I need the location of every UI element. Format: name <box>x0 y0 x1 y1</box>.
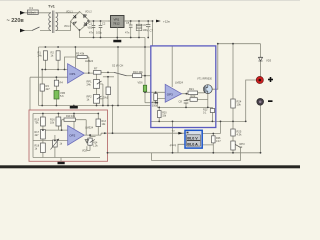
wire meter right side <box>202 134 220 153</box>
resistor R16 <box>56 117 61 126</box>
potentiometer RP2 <box>87 95 102 104</box>
wire inner rail y121.4 <box>151 120 246 122</box>
bottom black bar <box>0 165 300 168</box>
svg-text:R4: R4 <box>60 81 64 85</box>
diode VD3 <box>258 57 262 61</box>
wire brown box feedback left column <box>29 77 31 110</box>
wire riser com x172.5 <box>172 121 174 152</box>
wire wiper riser x102.9 <box>100 84 103 106</box>
wire riser x220.5 <box>220 121 222 133</box>
wire op1 plus input row y77.2 <box>30 76 68 78</box>
wire VD3 column to plus terminal <box>260 44 262 77</box>
ground on rail y105.5 <box>70 106 78 109</box>
svg-text:VD2: VD2 <box>82 150 87 153</box>
wire op2 output <box>84 134 101 136</box>
wire zener vd7 col <box>54 135 56 158</box>
brown box <box>29 110 108 161</box>
resistor R22 <box>190 98 197 102</box>
svg-text:Tv1: Tv1 <box>48 4 56 9</box>
svg-text:VD1.1: VD1.1 <box>66 11 73 14</box>
resistor R15 <box>41 117 46 126</box>
wire ground column x146.5 down from rail <box>144 38 146 86</box>
diode VD1.1 <box>73 15 76 18</box>
svg-text:C1: C1 <box>89 22 93 26</box>
svg-text:~ 220в: ~ 220в <box>7 18 25 24</box>
switch S2 <box>114 72 127 75</box>
wire op2 feedback <box>62 120 87 135</box>
wire signal path y73 <box>84 72 151 75</box>
bridge rectifier VD1 <box>71 12 91 31</box>
terminal arrow bottom <box>20 29 25 33</box>
capacitor C1 <box>92 21 96 38</box>
resistor R18 <box>41 143 46 153</box>
+12V arrow <box>156 20 161 23</box>
fuse F1 <box>28 6 39 14</box>
wire AC top <box>24 12 51 14</box>
svg-text:VT1 IRF9530: VT1 IRF9530 <box>197 78 212 81</box>
wire secondary bottom to bridge left <box>56 21 71 30</box>
resistor R1 <box>43 51 47 60</box>
wire R column x155.6 <box>155 92 157 102</box>
diode VD1.2 <box>84 15 87 18</box>
wire meter plus input from rail <box>101 106 185 136</box>
resistor R23 shunt <box>210 109 214 113</box>
switch S1 <box>32 27 40 31</box>
meter +U arrow <box>178 132 183 135</box>
resistor R2 <box>56 51 60 60</box>
svg-text:100mA: 100mA <box>28 12 36 15</box>
wire DA column x108.5 <box>107 77 109 106</box>
transformer Tv1 <box>49 11 58 34</box>
voltage regulator VR1 7812 <box>108 16 130 40</box>
wire riser x152.5 to blue box <box>152 21 154 46</box>
wire step x151.6 <box>151 153 153 161</box>
blue box <box>151 46 216 128</box>
transistor VT1 IRF9530 <box>197 78 212 94</box>
wire OP1 supply riser <box>74 47 76 68</box>
wire plus terminal branch <box>246 80 257 121</box>
svg-text:0.47: 0.47 <box>216 140 221 143</box>
resistor R20 <box>158 111 162 118</box>
wire box inner top rail <box>33 113 98 115</box>
wire VT1 source down <box>186 93 208 107</box>
wire rail y160.6 <box>152 148 241 161</box>
svg-text:300k: 300k <box>152 104 158 107</box>
svg-text:24k: 24k <box>87 83 92 87</box>
zener VD6 green reference <box>143 85 146 92</box>
wire op3 plus input y98.5 <box>157 99 165 108</box>
capacitor C8 <box>184 101 189 103</box>
resistor R13 <box>96 119 101 127</box>
wire inner rail y107.4 <box>157 106 212 108</box>
svg-text:VD1.2: VD1.2 <box>85 11 92 14</box>
svg-text:DA1: DA1 <box>103 96 109 100</box>
plus terminal <box>256 76 263 83</box>
wire AC bottom <box>24 30 51 32</box>
svg-text:VD1.3: VD1.3 <box>64 25 71 28</box>
wire switch second contact y76.8 <box>103 76 114 78</box>
wire OP2 supply riser <box>73 114 75 130</box>
wire top right rail y43.7 <box>218 43 261 45</box>
svg-text:1.3k: 1.3k <box>93 145 98 148</box>
wire riser x118 <box>117 47 119 106</box>
svg-text:7812: 7812 <box>113 22 120 26</box>
trimmer RP4 <box>88 138 99 147</box>
svg-text:00.0 V: 00.0 V <box>187 136 198 140</box>
AC terminal arrows <box>20 11 25 33</box>
plus sign <box>268 77 273 82</box>
wire reference column x145.6 <box>144 92 146 103</box>
svg-text:00.0 A: 00.0 A <box>187 142 198 146</box>
wire R16 col <box>57 114 59 131</box>
wire rail y105.5 <box>39 105 151 107</box>
op-amp OP3 <box>165 84 181 102</box>
resistor R24 <box>231 99 235 108</box>
wire box left column <box>33 114 100 158</box>
svg-text:+12в: +12в <box>163 19 170 23</box>
potentiometer RP1 <box>87 80 102 89</box>
diode VD2 <box>85 140 89 143</box>
svg-text:OP2: OP2 <box>69 134 75 138</box>
wire minus terminal column <box>260 105 262 153</box>
terminal arrow top <box>20 11 25 15</box>
wire R15 col <box>42 114 44 158</box>
resistor R5 feedback <box>77 56 87 59</box>
ground below brown box <box>58 162 65 164</box>
svg-text:10k: 10k <box>237 103 242 107</box>
wire feedback loop OP1 <box>65 57 89 73</box>
wire C8 column <box>185 100 187 108</box>
capacitor C5 <box>129 21 133 38</box>
resistor R7 <box>93 71 101 75</box>
reference DA1 <box>106 87 111 95</box>
potentiometer RP3 <box>231 141 245 150</box>
diode VD1.4 <box>84 22 87 25</box>
capacitor C7 <box>146 21 150 38</box>
top edge line <box>0 0 300 1</box>
op-amp OP2 <box>68 126 85 146</box>
wire R20 column <box>158 107 160 121</box>
wire R4 green column <box>55 77 57 105</box>
svg-text:-(com): -(com) <box>169 144 176 147</box>
resistor R4 <box>54 80 58 86</box>
svg-text:R5 43k: R5 43k <box>76 52 85 56</box>
wire DC plus rail y21 <box>88 20 153 22</box>
svg-text:4k7: 4k7 <box>46 87 51 91</box>
wire op3 out to R21 <box>182 92 205 95</box>
wire trimmer diode cluster <box>87 135 96 150</box>
minus sign <box>268 100 273 102</box>
svg-text:OP3: OP3 <box>167 92 173 96</box>
svg-text:VD6: VD6 <box>138 81 144 85</box>
wire shunt R23 column <box>211 107 213 121</box>
svg-text:C6: C6 <box>143 23 147 27</box>
svg-text:C5: C5 <box>126 21 130 25</box>
svg-text:S2 I/II CH: S2 I/II CH <box>112 64 123 68</box>
capacitor C6 electrolytic <box>136 21 142 38</box>
svg-text:R19 43k: R19 43k <box>66 115 76 118</box>
ground below regulator <box>113 40 121 43</box>
trimmer RP5 <box>53 140 58 147</box>
wire R1 R2 stubs to input row <box>45 60 58 69</box>
svg-text:R10 43k: R10 43k <box>133 70 143 74</box>
svg-text:F1: F1 <box>30 6 34 10</box>
svg-text:C7: C7 <box>150 29 154 33</box>
resistor R25 <box>231 129 235 136</box>
svg-text:VD3: VD3 <box>266 59 272 63</box>
wire meter com stub <box>178 144 185 153</box>
wire R24 column <box>232 44 234 153</box>
wire op2 inv input <box>43 129 68 131</box>
wire rail y102.7 green to op3 riser <box>145 102 157 104</box>
wire bridge bottom to minus rail <box>80 30 146 38</box>
resistor R21 <box>188 91 198 95</box>
wire pot column x96.5 <box>96 74 98 105</box>
meter box <box>185 130 202 148</box>
svg-text:4.3k: 4.3k <box>237 133 243 137</box>
wire op3 inv input y89 <box>145 91 165 93</box>
wire rail y47 <box>39 46 151 48</box>
svg-text:C2: C2 <box>102 22 106 26</box>
capacitor C2 electrolytic <box>99 21 103 38</box>
zener VD5 green <box>54 91 59 100</box>
svg-text:OP1: OP1 <box>70 72 76 76</box>
svg-text:R7: R7 <box>94 67 98 71</box>
svg-text:R22: R22 <box>191 94 196 98</box>
wire rail y152.8 <box>108 152 261 154</box>
op-amp OP1 <box>68 64 85 83</box>
resistor R19 <box>64 118 76 121</box>
resistor R16b left <box>154 94 158 101</box>
svg-text:47n: 47n <box>89 31 94 35</box>
minus terminal <box>257 98 264 105</box>
svg-text:R21: R21 <box>189 87 194 91</box>
wire op2 plus input <box>33 140 68 142</box>
svg-text:LM324: LM324 <box>85 59 93 63</box>
resistor R17 <box>41 130 46 140</box>
resistor R3 <box>40 84 44 91</box>
shunt R26 <box>212 136 216 143</box>
svg-text:47n: 47n <box>125 31 130 35</box>
svg-text:4k7: 4k7 <box>35 134 40 137</box>
svg-text:24k: 24k <box>38 54 43 58</box>
diode VD1.3 <box>74 22 77 25</box>
wire transformer secondary top to bridge <box>56 12 80 14</box>
svg-text:100μ: 100μ <box>96 31 102 35</box>
svg-text:LM324: LM324 <box>85 126 93 130</box>
resistor R10 <box>133 74 142 78</box>
wire VT1 drain to top rail <box>212 44 218 89</box>
svg-text:5.6: 5.6 <box>60 94 64 98</box>
svg-text:LM324: LM324 <box>175 81 183 85</box>
wire left column x38.5 <box>38 47 40 106</box>
svg-text:C8: C8 <box>179 100 183 104</box>
wire R3 column <box>41 70 43 106</box>
wire R13 col <box>97 114 99 136</box>
wire op1 inv input row y69.5 <box>42 69 67 71</box>
wire supply drop x172.2 <box>171 46 173 87</box>
